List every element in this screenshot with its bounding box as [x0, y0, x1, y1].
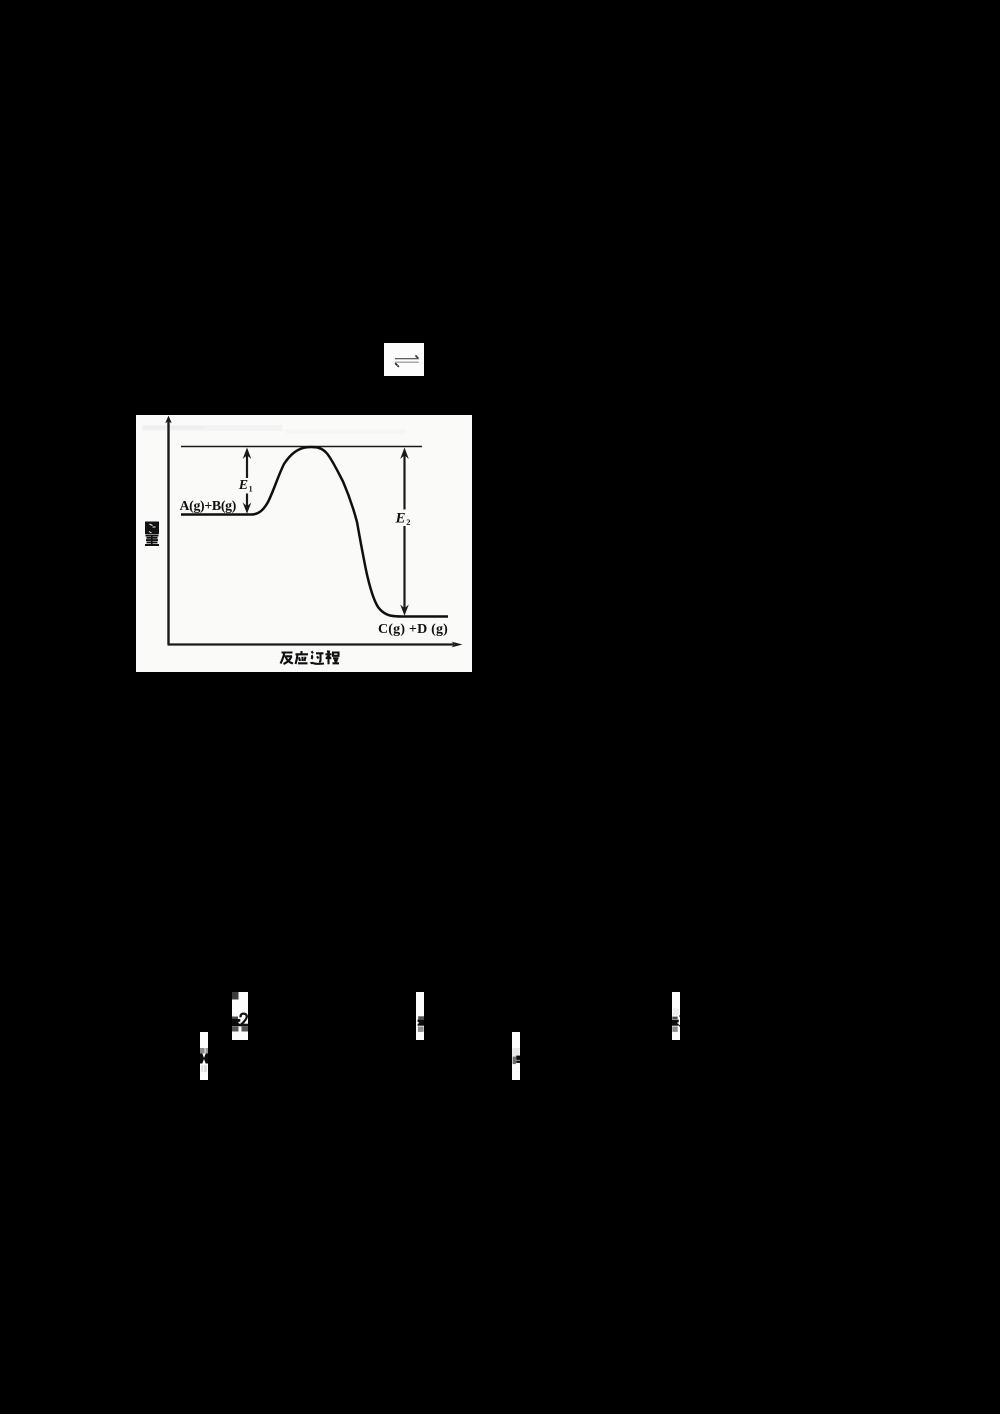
E1 double arrow — [243, 448, 252, 514]
svg-text:E: E — [238, 478, 248, 493]
fragment patch C — [416, 992, 424, 1040]
E2 double arrow — [400, 448, 409, 616]
scan smudges — [142, 425, 282, 431]
top reference line — [181, 446, 422, 448]
digit 2 — [241, 1014, 247, 1025]
x-axis label (反应过程) drawn — [281, 651, 340, 664]
equilibrium-symbol white patch — [384, 343, 424, 376]
过 — [311, 651, 325, 664]
svg-text:E: E — [395, 511, 406, 527]
svg-text:1: 1 — [249, 485, 253, 494]
bottom harpoon (left) — [395, 361, 419, 363]
fragment patch A — [232, 992, 248, 1040]
energy curve — [181, 447, 448, 616]
程 — [326, 651, 340, 664]
fragment patch E — [672, 992, 680, 1040]
x-axis — [168, 643, 455, 645]
E2 label — [395, 510, 412, 527]
y-axis — [167, 421, 169, 645]
svg-text:2: 2 — [406, 517, 410, 527]
E1 label — [239, 478, 254, 494]
svg-text:C(g) +D (g): C(g) +D (g) — [378, 622, 448, 637]
应 — [296, 651, 309, 664]
y-axis label (能量) drawn — [145, 522, 159, 547]
top harpoon (right) — [395, 358, 419, 360]
svg-text:A(g)+B(g): A(g)+B(g) — [180, 498, 237, 514]
fragment patch B — [200, 1032, 208, 1080]
energy diagram panel — [136, 415, 472, 672]
反 — [281, 653, 294, 665]
fragment patch D — [512, 1032, 520, 1080]
